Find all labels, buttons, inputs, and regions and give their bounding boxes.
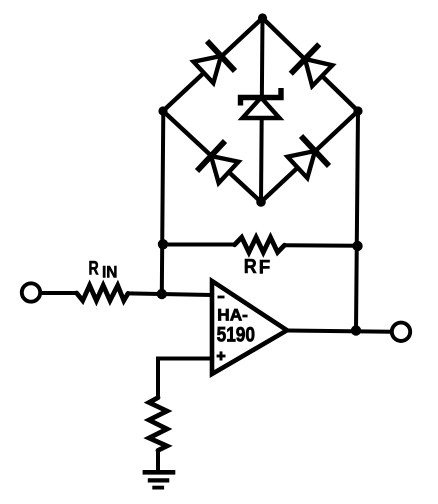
svg-text:F: F [259, 257, 271, 278]
svg-text:R: R [244, 255, 257, 278]
svg-text:IN: IN [102, 263, 118, 282]
svg-text:5190: 5190 [217, 322, 255, 346]
svg-text:R: R [89, 258, 99, 279]
